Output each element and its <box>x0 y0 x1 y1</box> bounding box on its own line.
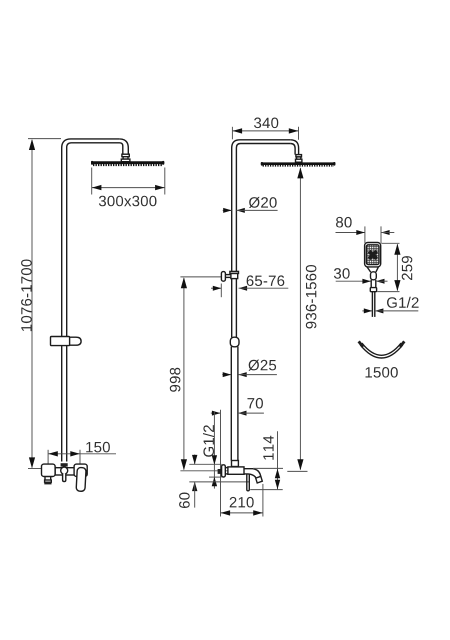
dimension 936-1560 vertical line <box>287 167 307 471</box>
dimension 300x300 <box>92 168 165 195</box>
hand shower handle <box>367 267 378 292</box>
telescopic pipe joint <box>230 337 239 347</box>
label 936-1560 <box>306 265 317 329</box>
dimension 1076-1700 vertical line <box>28 139 61 469</box>
dimension diameter 25 <box>222 372 277 377</box>
wall slider bracket (front view) <box>221 271 238 281</box>
rain shower head (front/edge view) <box>261 162 336 166</box>
dimension 259 vertical line <box>377 243 400 291</box>
label 114 <box>263 436 273 460</box>
slider holder bracket <box>51 337 82 346</box>
label 259 <box>402 256 413 280</box>
hand shower head <box>365 243 381 267</box>
label 65-76 <box>247 275 285 286</box>
label diameter 20 <box>249 197 277 208</box>
shower mixer (left figure) <box>42 463 88 491</box>
label 998 <box>170 368 181 392</box>
label 1076-1700 <box>21 259 32 331</box>
dimension 80 <box>336 226 395 243</box>
bath mixer (front view) <box>218 461 263 491</box>
shower column pipe (side view) <box>62 139 129 462</box>
dimension 60 vertical line <box>192 455 197 508</box>
label 210 <box>230 497 254 508</box>
dimension 210 <box>220 484 263 517</box>
label 60 <box>179 493 190 508</box>
label G1/2 (right) <box>387 297 419 308</box>
dimension diameter 20 <box>223 208 278 213</box>
label 300x300 <box>99 196 157 207</box>
wall axis extension line <box>213 412 215 489</box>
shower arm connector nut (left) <box>121 154 130 162</box>
dimension 114 vertical line <box>250 431 283 489</box>
dimension G1/2 (middle) arrows <box>212 455 217 486</box>
label diameter 25 <box>249 360 277 371</box>
dimension G1/2 (right) arrows <box>362 308 418 313</box>
dimension 30 <box>336 279 388 284</box>
label 80 <box>336 217 352 228</box>
mixer axis extension lines <box>180 464 249 482</box>
label 70 <box>247 398 262 409</box>
dimension 340 <box>232 127 298 140</box>
shower arm connector nut (middle) <box>296 155 302 163</box>
rain shower head 300x300 (side view) <box>91 161 164 165</box>
hose stub below handle <box>372 292 374 317</box>
shower hose arc 1500 <box>358 341 406 358</box>
shower column pipe (front view) <box>231 140 298 461</box>
wall flange extension line <box>220 410 222 517</box>
dimension 70 <box>211 411 264 416</box>
label 30 <box>334 268 350 279</box>
label 150 <box>86 442 110 453</box>
dimension 150 <box>48 450 116 464</box>
dimension 998 vertical line <box>180 277 221 470</box>
label 340 <box>254 118 278 129</box>
label G1/2 (middle) <box>203 425 214 457</box>
dimension 65-76 <box>211 284 288 298</box>
label 1500 <box>366 367 398 378</box>
